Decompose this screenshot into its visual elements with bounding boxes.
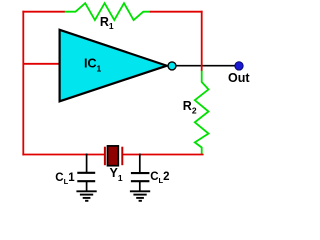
wire: bottom rail left segment (corner to crystal) (22, 154, 105, 156)
ground (under CL2) (130, 191, 150, 201)
svg-text:R2: R2 (183, 99, 197, 116)
svg-text:CL1: CL1 (55, 172, 75, 186)
wire: bottom rail right segment (crystal to bottom-right corner) (122, 154, 203, 156)
svg-text:CL2: CL2 (150, 171, 169, 185)
crystal Y1 (105, 146, 122, 166)
svg-text:Out: Out (228, 71, 250, 85)
wire: top rail right segment (R1 to top-right corner) (150, 11, 203, 13)
wire: top rail left segment (corner to R1) (22, 11, 65, 13)
capacitor CL1 (77, 154, 95, 192)
wire: input branch from left rail to IC1 input (23, 63, 60, 65)
resistor R2 (195, 71, 209, 155)
ground (under CL1) (76, 191, 96, 201)
wire: output line from inverter bubble to Out node (171, 65, 239, 67)
resistor R1 (65, 3, 151, 20)
svg-text:Y1: Y1 (110, 166, 123, 183)
wire: right vertical upper segment (top-right corner to R2) (201, 11, 203, 71)
node Out (output terminal dot) (235, 62, 243, 70)
capacitor CL2 (131, 154, 150, 192)
op-amp / inverter IC1 (triangle) (60, 30, 167, 102)
inverter bubble on IC1 output (168, 62, 176, 70)
wire: left vertical from top-left corner down to bottom rail (22, 11, 24, 156)
